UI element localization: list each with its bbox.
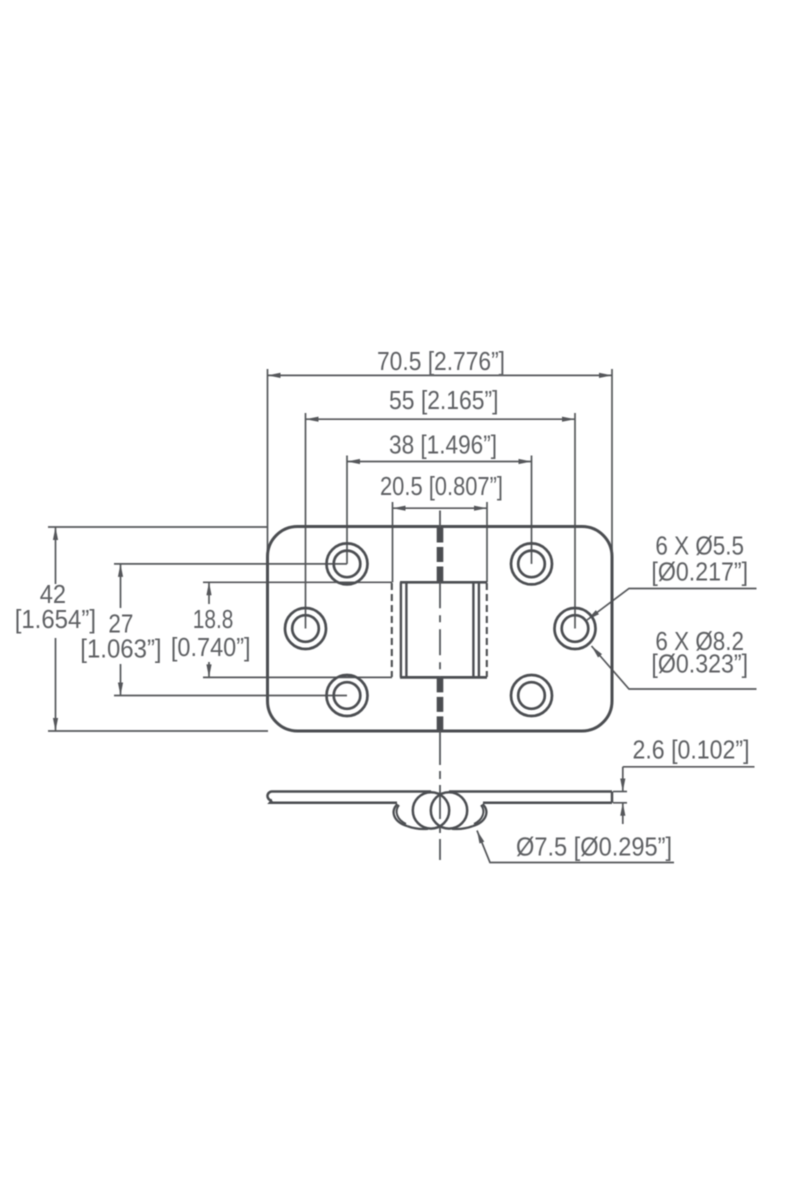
side view left curl outer circle [413,792,449,828]
hole top-right outer [511,543,552,584]
side view right curl bottom connector [452,826,473,829]
barrel right wall outer [478,582,480,677]
dimension line 42 upper segment [55,527,57,584]
dimension line 55 [306,418,576,420]
extension line body right to 70.5 dim [611,369,613,556]
barrel hidden line left [391,583,393,677]
side view right curl sheet end hook inner [474,805,483,824]
leaf parting line below barrel [437,677,444,731]
side view right curl outer circle [431,792,467,828]
dimension line 18.8 upper segment [208,582,210,604]
side view left curl sheet end hook outer [394,804,408,826]
dimension line 27 upper segment [120,564,122,608]
extension line top hole row to 27 dim [114,563,347,565]
center line above body [439,511,441,528]
svg-text:70.5 [2.776”]: 70.5 [2.776”] [377,346,505,376]
extension line barrel bottom to 18.8 dim [203,676,392,678]
extension line barrel right to 20.5 dim [486,502,488,582]
hole mid-right outer [555,608,596,649]
leaf parting line above barrel [437,528,444,583]
hole bottom-left outer [327,675,368,716]
dimension 2.6 arrow above [622,767,624,792]
side view left curl bottom connector [408,826,429,829]
hole bottom-right inner [518,682,545,709]
barrel left wall inner [405,582,407,677]
hole top-left outer [327,543,368,584]
svg-text:[1.063”]: [1.063”] [80,634,161,664]
extension line top-right hole to 38 dim [531,456,533,564]
dimension 2.6 shoulder [623,766,755,768]
svg-text:[1.654”]: [1.654”] [15,604,96,634]
svg-text:20.5 [0.807”]: 20.5 [0.807”] [380,471,503,501]
extension line mid-right hole to 55 dim [574,413,576,629]
svg-text:38 [1.496”]: 38 [1.496”] [389,430,497,460]
svg-text:2.6 [0.102”]: 2.6 [0.102”] [633,735,750,765]
hole bottom-right outer [511,675,552,716]
side view left plate left cap [268,792,273,801]
barrel bottom edge [400,676,487,679]
center line below body to side view [439,731,441,860]
svg-text:18.8: 18.8 [193,604,234,634]
side view right plate right cap [611,792,614,803]
extension line body left to 70.5 dim [267,369,269,556]
dimension line 42 lower segment [55,638,57,731]
hole top-left inner [334,551,361,578]
svg-text:Ø7.5 [Ø0.295”]: Ø7.5 [Ø0.295”] [516,832,672,862]
extension ticks plate thickness [613,791,627,793]
center line inside barrel [439,582,441,677]
hole top-right inner [518,551,545,578]
extension line top-left hole to 38 dim [346,456,348,564]
hinge body outline [268,527,613,732]
barrel top edge [400,581,487,584]
dimension line 70.5 [268,374,613,376]
svg-text:[Ø0.323”]: [Ø0.323”] [651,649,748,679]
leader for hole dia 5.5 [587,589,757,621]
side view right plate bottom edge [483,802,612,805]
dimension line 27 lower segment [120,664,122,696]
dimension 2.6 arrow below [622,803,624,824]
barrel hidden line right [486,583,488,677]
extension line body top to 42 dim [48,526,268,528]
extension line barrel left to 20.5 dim [392,502,394,582]
svg-text:[Ø0.217”]: [Ø0.217”] [651,556,748,586]
dimension line 18.8 lower segment [208,662,210,677]
side view right curl sheet end hook outer [473,804,487,826]
hole mid-right inner [562,615,589,642]
hole mid-left outer [285,608,326,649]
dimension line 38 [347,461,532,463]
svg-text:[0.740”]: [0.740”] [171,632,251,662]
extension line barrel top to 18.8 dim [203,581,392,583]
extension line body bottom to 42 dim [48,730,268,732]
side view left curl sheet end hook inner [397,805,406,824]
side view left plate top edge [272,790,431,793]
barrel left wall outer [400,582,402,677]
hole mid-left inner [292,615,319,642]
extension line bottom hole row to 27 dim [114,695,347,697]
extension line mid-left hole to 55 dim [305,413,307,629]
barrel right wall inner [472,582,474,677]
hole bottom-left inner [334,682,361,709]
side view right plate top edge [449,790,612,793]
dimension line 20.5 [393,507,488,509]
leader for hole dia 8.2 [592,646,757,689]
leader for pin dia 7.5 [477,831,674,863]
svg-text:55 [2.165”]: 55 [2.165”] [389,385,499,415]
side view left plate bottom edge [270,801,397,803]
